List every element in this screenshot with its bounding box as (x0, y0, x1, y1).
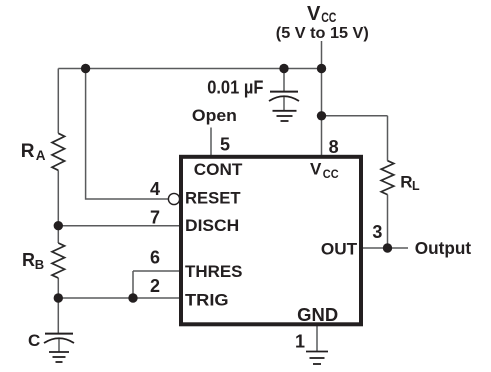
svg-text:THRES: THRES (185, 262, 243, 281)
svg-text:4: 4 (150, 179, 160, 199)
svg-text:(5 V to 15 V): (5 V to 15 V) (276, 25, 369, 42)
svg-text:L: L (412, 179, 420, 193)
svg-text:2: 2 (150, 276, 160, 296)
svg-text:V: V (310, 160, 322, 179)
svg-text:OUT: OUT (321, 240, 358, 259)
svg-text:R: R (21, 141, 35, 162)
svg-text:6: 6 (150, 248, 160, 268)
svg-text:DISCH: DISCH (185, 216, 239, 235)
svg-text:TRIG: TRIG (185, 290, 229, 309)
svg-text:CC: CC (323, 167, 339, 181)
svg-text:A: A (36, 148, 46, 163)
svg-text:CONT: CONT (194, 160, 243, 179)
svg-text:5: 5 (220, 135, 230, 155)
svg-text:GND: GND (297, 305, 338, 325)
svg-text:0.01 µF: 0.01 µF (207, 78, 263, 98)
svg-text:Open: Open (192, 106, 237, 125)
svg-text:3: 3 (372, 222, 382, 242)
svg-text:R: R (22, 250, 35, 270)
svg-text:C: C (28, 331, 40, 350)
svg-text:R: R (400, 173, 412, 192)
svg-text:8: 8 (329, 137, 339, 157)
svg-text:CC: CC (321, 9, 336, 25)
svg-text:1: 1 (295, 332, 305, 352)
svg-text:RESET: RESET (185, 189, 241, 208)
svg-text:Output: Output (415, 238, 472, 258)
svg-text:V: V (307, 3, 321, 25)
svg-text:7: 7 (150, 207, 160, 227)
svg-text:B: B (35, 257, 44, 272)
